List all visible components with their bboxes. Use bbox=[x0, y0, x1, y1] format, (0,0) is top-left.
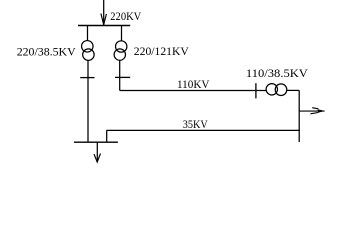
svg-text:220KV: 220KV bbox=[110, 9, 141, 23]
switch tick on T1 leg bbox=[80, 77, 94, 79]
wire: T2 down to 110KV line corner bbox=[119, 60, 121, 90]
svg-text:220/121KV: 220/121KV bbox=[134, 44, 189, 58]
arrowhead down on 35KV feeder bbox=[94, 154, 101, 163]
transformer T3 110/38.5KV (two overlapping circles horizontal) bbox=[266, 84, 287, 96]
wire: riser from bottom bar to 35KV bus bbox=[106, 130, 108, 142]
wire: 110KV line right segment bbox=[287, 89, 299, 91]
switch tick on T2 leg bbox=[115, 76, 130, 78]
wire: outgoing feeder right bbox=[299, 110, 324, 112]
wire: right vertical drop bbox=[298, 90, 300, 142]
arrowhead down on incoming feeder bbox=[101, 14, 107, 25]
node: 35KV bus line bbox=[106, 129, 299, 131]
wire: 110KV line left segment bbox=[120, 90, 267, 92]
wire: busbar to transformer T1 bbox=[87, 26, 89, 41]
arrowhead right on outgoing feeder bbox=[310, 108, 318, 114]
transformer T2 220/121KV (two overlapping circles) bbox=[114, 41, 127, 60]
svg-text:35KV: 35KV bbox=[183, 117, 208, 131]
switch tick on 110KV line bbox=[255, 83, 257, 98]
wire: T1 down to 35KV bottom bar bbox=[87, 60, 89, 142]
node: 220KV busbar bbox=[78, 25, 130, 27]
wire: incoming 220KV feeder vertical bbox=[103, 0, 105, 25]
transformer T1 220/38.5KV (two overlapping circles) bbox=[82, 41, 95, 61]
svg-text:110KV: 110KV bbox=[177, 77, 210, 91]
svg-text:220/38.5KV: 220/38.5KV bbox=[17, 45, 76, 59]
wire: outgoing 35KV feeder down bbox=[96, 142, 98, 161]
svg-text:110/38.5KV: 110/38.5KV bbox=[246, 66, 308, 80]
wire: busbar to transformer T2 bbox=[121, 26, 123, 41]
node: 35KV bottom bar bbox=[74, 141, 118, 143]
